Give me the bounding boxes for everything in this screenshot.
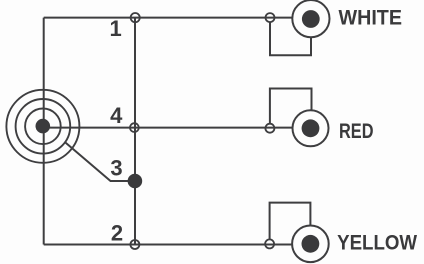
svg-text:RED: RED <box>339 119 374 143</box>
svg-text:4: 4 <box>110 103 123 128</box>
label RED <box>339 119 374 143</box>
node pin 3 (junction dot) <box>128 174 143 189</box>
RCA plug P2 (red) <box>293 110 329 146</box>
pin label 4 <box>110 103 123 128</box>
RCA plug P3 (yellow) <box>292 226 329 263</box>
connector J1: 3.5mm jack face view <box>6 90 79 163</box>
node: RED plug shield tap <box>265 124 274 133</box>
svg-text:2: 2 <box>111 221 123 246</box>
node pin 1 <box>131 13 140 22</box>
wire: middle net from jack tip contact to RED plug tip <box>43 127 293 129</box>
svg-text:3: 3 <box>110 156 122 181</box>
node pin 2 <box>130 240 139 249</box>
label YELLOW <box>337 230 418 254</box>
svg-text:YELLOW: YELLOW <box>337 230 418 254</box>
wire: right vertical bus joining pins 1,4,3,2 <box>134 18 136 245</box>
wire: YELLOW plug shield bracket <box>270 203 311 240</box>
node pin 4 <box>130 123 139 132</box>
wire: RED plug shield bracket <box>270 89 312 124</box>
pin label 3 <box>110 156 122 181</box>
wire: left vertical bus through jack center <box>43 18 45 245</box>
pin label 1 <box>109 16 121 41</box>
wire: top net from jack to WHITE plug tip <box>44 17 293 19</box>
wire: bottom net from jack to YELLOW plug tip <box>44 244 292 246</box>
svg-text:1: 1 <box>109 16 121 41</box>
svg-text:WHITE: WHITE <box>339 6 403 30</box>
node: YELLOW plug shield tap <box>265 239 274 248</box>
wire: WHITE plug shield bracket <box>270 22 311 55</box>
label WHITE <box>339 6 403 30</box>
wire: diagonal tap from jack ring to node 3 <box>65 142 135 181</box>
node: WHITE plug shield tap <box>266 13 275 22</box>
pin label 2 <box>111 221 123 246</box>
RCA plug P1 (white) <box>292 0 329 37</box>
